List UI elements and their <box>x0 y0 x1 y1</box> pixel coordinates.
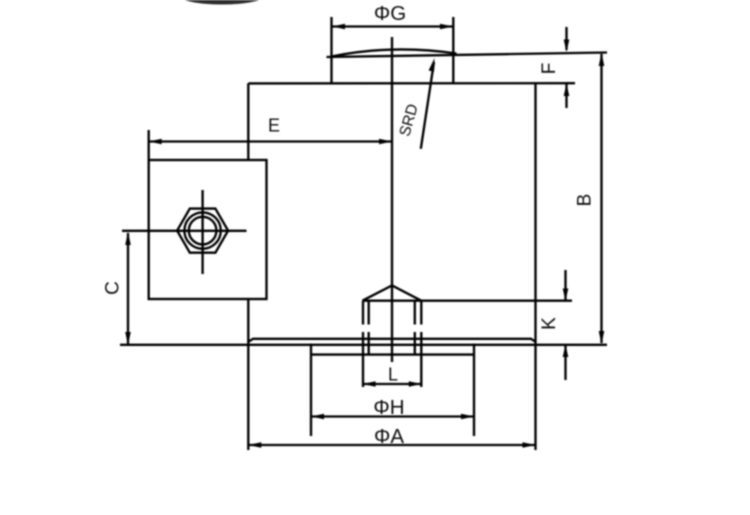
svg-text:ΦG: ΦG <box>374 2 406 25</box>
svg-text:C: C <box>103 281 124 295</box>
svg-text:E: E <box>268 116 280 136</box>
svg-text:B: B <box>575 194 596 207</box>
svg-text:L: L <box>388 365 398 385</box>
svg-text:K: K <box>539 317 560 330</box>
svg-text:ΦH: ΦH <box>373 396 404 419</box>
svg-text:F: F <box>539 63 560 75</box>
svg-text:ΦA: ΦA <box>374 425 404 448</box>
svg-text:SRD: SRD <box>396 102 421 138</box>
